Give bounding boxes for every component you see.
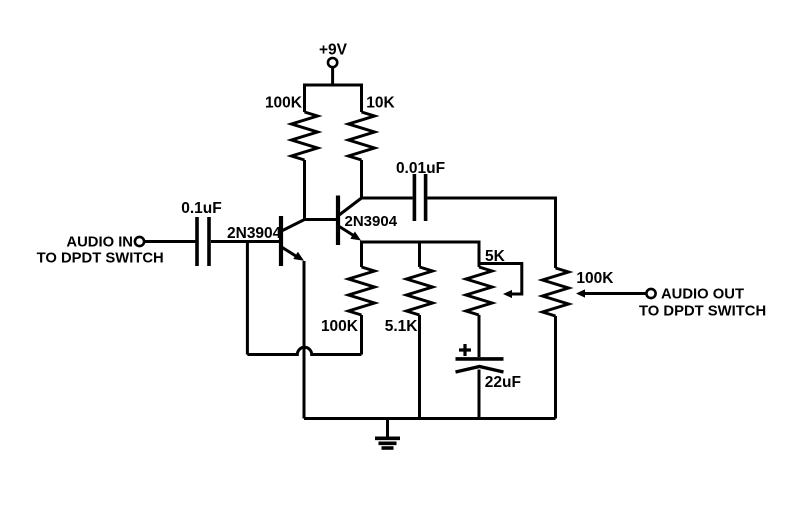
transistor Q1 [281, 216, 305, 266]
node audio-out terminal [646, 289, 655, 298]
svg-text:100K: 100K [265, 95, 303, 112]
wire Q1 collector to Q2 base [305, 218, 337, 221]
wire R3 top lead [360, 242, 363, 267]
wire R1 bottom lead [303, 160, 306, 220]
svg-text:10K: 10K [366, 95, 395, 112]
wire R3 bottom lead [360, 315, 363, 355]
ground [375, 419, 400, 449]
node +9V terminal [328, 58, 337, 67]
wire R6 wiper to output terminal [583, 292, 646, 295]
resistor R1 100K [292, 112, 318, 160]
wire R2 top lead [360, 85, 363, 112]
potentiometer R5 5K [466, 267, 492, 315]
resistor R2 10K [349, 112, 375, 160]
R6 wiper arrowhead [576, 289, 585, 297]
svg-text:2N3904: 2N3904 [345, 213, 398, 230]
wire R2 bottom lead [360, 160, 363, 198]
wire top supply bus [305, 85, 362, 87]
wire R5 bottom lead [478, 315, 481, 357]
wire C2 to output pot [427, 198, 555, 268]
wire bottom ground bus [304, 417, 556, 420]
svg-text:TO DPDT SWITCH: TO DPDT SWITCH [639, 304, 766, 320]
capacitor C2 0.01uF [414, 174, 425, 221]
svg-text:2N3904: 2N3904 [227, 225, 282, 242]
node audio-in terminal [135, 237, 144, 246]
label C3 plus sign [459, 344, 471, 356]
svg-text:100K: 100K [321, 318, 359, 335]
wire R4 top lead [418, 242, 421, 267]
wire R4 bottom lead [418, 315, 421, 419]
svg-text:100K: 100K [576, 270, 614, 287]
capacitor C3 22uF electrolytic [456, 359, 504, 372]
wire Q2 emitter bus [362, 241, 480, 268]
svg-text:AUDIO IN: AUDIO IN [66, 235, 133, 251]
svg-text:22uF: 22uF [485, 374, 521, 391]
wire Q2 collector node to C2 [362, 197, 413, 200]
wire Q1 emitter vertical [303, 261, 306, 419]
svg-text:5.1K: 5.1K [385, 318, 419, 335]
svg-text:AUDIO OUT: AUDIO OUT [661, 286, 744, 302]
wire input to C1 [145, 240, 196, 243]
potentiometer R6 100K output [543, 268, 569, 316]
resistor R4 5.1K [407, 267, 433, 315]
resistor R3 100K [349, 267, 375, 315]
wire feedback vertical [246, 242, 249, 355]
wire feedback horizontal with hop [247, 347, 361, 354]
wire C3 bottom lead [478, 370, 481, 419]
transistor Q2 [338, 196, 362, 246]
capacitor C1 0.1uF [197, 217, 209, 266]
svg-text:0.01uF: 0.01uF [396, 160, 445, 177]
wire R5 wiper loop [479, 264, 522, 295]
wire +9V stem [331, 68, 334, 86]
wire R6 bottom lead [554, 316, 557, 419]
wire R1 top lead [303, 85, 306, 112]
svg-text:+9V: +9V [319, 42, 348, 59]
svg-text:TO DPDT SWITCH: TO DPDT SWITCH [37, 251, 164, 267]
svg-text:0.1uF: 0.1uF [181, 200, 221, 217]
wire C1 to Q1 base [211, 240, 279, 243]
R5 wiper arrowhead [503, 290, 512, 298]
